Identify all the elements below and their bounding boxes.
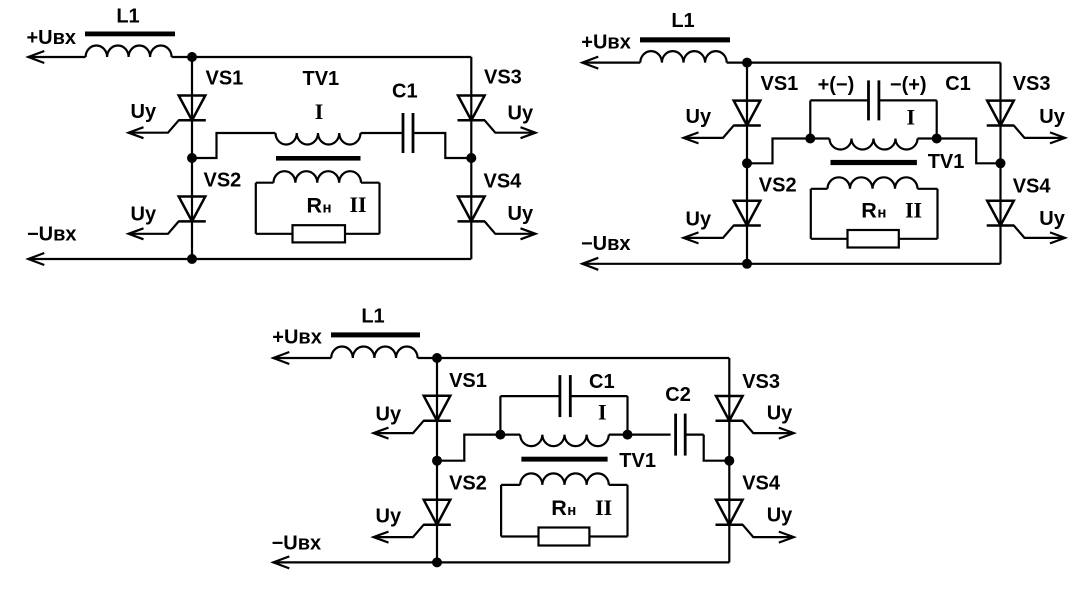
svg-text:Uy: Uy <box>1039 106 1065 128</box>
svg-text:−Uвх: −Uвх <box>581 233 631 255</box>
svg-text:VS1: VS1 <box>761 73 799 95</box>
svg-text:C1: C1 <box>589 371 615 393</box>
svg-text:I: I <box>315 99 324 124</box>
svg-text:Uy: Uy <box>1039 208 1065 230</box>
svg-text:VS3: VS3 <box>1013 73 1051 95</box>
svg-text:Uy: Uy <box>376 404 402 426</box>
svg-text:VS1: VS1 <box>206 68 244 90</box>
svg-text:+Uвх: +Uвх <box>27 27 77 49</box>
svg-text:C2: C2 <box>665 384 691 406</box>
svg-text:+Uвх: +Uвх <box>581 32 631 54</box>
svg-text:Rн: Rн <box>861 199 886 223</box>
svg-text:−Uвх: −Uвх <box>272 533 322 555</box>
svg-text:I: I <box>598 399 607 424</box>
svg-text:+(−): +(−) <box>818 74 855 96</box>
svg-text:VS4: VS4 <box>742 472 781 494</box>
svg-text:Uy: Uy <box>508 103 534 125</box>
svg-text:+Uвх: +Uвх <box>272 327 322 349</box>
svg-text:Uy: Uy <box>376 506 402 528</box>
svg-text:−(+): −(+) <box>890 74 927 96</box>
svg-text:TV1: TV1 <box>928 151 965 173</box>
svg-text:C1: C1 <box>945 73 971 95</box>
svg-text:II: II <box>350 192 367 217</box>
svg-text:Rн: Rн <box>551 496 576 520</box>
svg-text:VS3: VS3 <box>742 371 780 393</box>
svg-text:TV1: TV1 <box>303 68 340 90</box>
svg-text:VS3: VS3 <box>484 67 522 89</box>
svg-text:Uy: Uy <box>767 505 793 527</box>
svg-text:VS1: VS1 <box>449 370 487 392</box>
svg-text:Uy: Uy <box>131 204 157 226</box>
svg-text:Uy: Uy <box>767 402 793 424</box>
svg-text:L1: L1 <box>116 6 139 28</box>
svg-text:I: I <box>907 105 916 130</box>
svg-text:L1: L1 <box>671 10 694 32</box>
svg-text:Uy: Uy <box>686 106 712 128</box>
svg-text:Uy: Uy <box>131 101 157 123</box>
svg-text:VS4: VS4 <box>484 171 523 193</box>
svg-text:Uy: Uy <box>686 209 712 231</box>
svg-text:C1: C1 <box>392 81 418 103</box>
svg-text:Rн: Rн <box>307 194 332 218</box>
svg-text:VS4: VS4 <box>1013 176 1052 198</box>
svg-text:VS2: VS2 <box>759 174 797 196</box>
svg-text:VS2: VS2 <box>449 472 487 494</box>
svg-text:TV1: TV1 <box>619 450 656 472</box>
svg-text:II: II <box>595 495 612 520</box>
svg-text:Uy: Uy <box>508 203 534 225</box>
svg-text:II: II <box>905 198 922 223</box>
svg-text:−Uвх: −Uвх <box>27 224 77 246</box>
svg-text:L1: L1 <box>361 306 384 328</box>
svg-text:VS2: VS2 <box>204 170 242 192</box>
